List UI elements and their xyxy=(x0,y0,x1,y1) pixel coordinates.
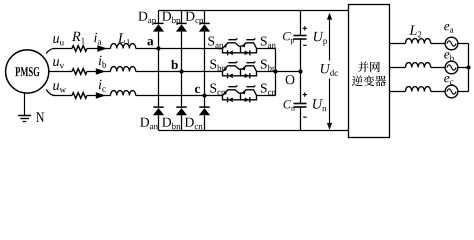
resistor R (phase c) xyxy=(72,93,87,99)
O vertical connector xyxy=(275,49,277,96)
diode Dc2 (right-pointing) xyxy=(245,97,250,102)
column c lower wire to bottom rail xyxy=(204,115,206,130)
wire source e_c to bus xyxy=(458,91,468,93)
wire resistor to arrow (phase c) xyxy=(87,95,100,97)
inverter text line 1 (bing wang) xyxy=(358,61,369,72)
node N label xyxy=(36,112,44,122)
wire inductor to switch (phase b) xyxy=(136,71,222,73)
current label i_c xyxy=(99,80,106,92)
resistor label R1 xyxy=(72,32,85,44)
diode Dc1 (left-pointing) xyxy=(228,97,233,102)
transistor Qa1 emitter arrow xyxy=(224,44,227,48)
inductor L (phase b) xyxy=(111,67,136,72)
transistor Qb1 emitter arrow xyxy=(224,67,227,71)
wire resistor to arrow (phase b) xyxy=(87,71,100,73)
grid neutral bus xyxy=(468,44,470,92)
node a label xyxy=(147,39,153,45)
AC source e_a xyxy=(445,37,458,50)
bidirectional switch S_cp/S_cn body xyxy=(223,90,257,100)
inductor L2 (row b) xyxy=(406,63,431,68)
voltage label u_w xyxy=(53,83,66,92)
voltage label u_v xyxy=(53,59,64,68)
wire inductor to switch (phase a) xyxy=(136,48,222,50)
junction dot capacitor midpoint xyxy=(298,69,302,73)
label e_b xyxy=(444,52,454,61)
label e_a xyxy=(444,24,453,33)
transistor Qb1 gate bar xyxy=(228,61,237,62)
diode Db2 (right-pointing) xyxy=(245,73,250,78)
transistor Qa2 emitter arrow xyxy=(243,44,246,48)
label U_p xyxy=(314,32,327,46)
wire inverter to L2 (row c) xyxy=(390,91,406,93)
column b wire row to lower diode xyxy=(181,72,183,107)
wire switch a output xyxy=(257,48,276,50)
current arrow i_b xyxy=(96,68,106,74)
Udc arrow upper segment xyxy=(329,17,331,61)
inductor L (phase c) xyxy=(111,91,136,96)
capacitor Cp xyxy=(294,35,307,37)
column a lower wire to bottom rail xyxy=(158,115,160,130)
current label i_b xyxy=(99,56,106,68)
PMSG text xyxy=(15,67,39,76)
ground symbol xyxy=(18,115,31,117)
column a wire diode to row a xyxy=(158,32,160,49)
diode Db1 (left-pointing) xyxy=(228,73,233,78)
phase c fork from PMSG xyxy=(46,90,55,96)
capacitor column upper wire xyxy=(300,11,302,35)
transistor Qc1 gate bar xyxy=(228,85,237,86)
inductor L (phase a) xyxy=(111,44,136,49)
label L2 xyxy=(409,26,421,38)
PMSG generator circle xyxy=(6,50,49,93)
transistor Qb2 emitter arrow xyxy=(243,67,246,71)
wire source e_a to bus xyxy=(458,43,468,45)
label D_cn xyxy=(185,118,203,130)
label C_p xyxy=(283,32,294,44)
diode Da1 (left-pointing) xyxy=(228,50,233,55)
label D_an xyxy=(140,118,158,130)
inductor L2 (row c) xyxy=(406,87,431,92)
diode D_an xyxy=(153,106,163,108)
wire phase b to resistor xyxy=(49,71,72,73)
inverter text line 2 (ni bian qi) xyxy=(352,75,363,86)
capacitor Cp plus sign xyxy=(303,27,307,29)
label S_bp xyxy=(210,60,225,73)
column b wire diode to row b xyxy=(181,32,183,72)
junction dot node b xyxy=(179,69,183,73)
top DC rail (positive) xyxy=(159,10,349,12)
wire arrow to inductor (phase b) xyxy=(104,71,111,73)
label S_ap xyxy=(208,37,223,50)
wire phase a to resistor xyxy=(53,48,72,50)
grid inverter box xyxy=(349,5,390,138)
wire inverter to L2 (row a) xyxy=(390,43,406,45)
column b upper wire xyxy=(181,11,183,24)
wire source e_b to bus xyxy=(458,67,468,69)
column c upper wire xyxy=(204,11,206,24)
capacitor Cn minus sign xyxy=(303,116,306,118)
capacitor column middle wire xyxy=(300,39,302,103)
column a wire row to lower diode xyxy=(158,49,160,107)
wire inductor to switch (phase c) xyxy=(136,95,222,97)
diode D_bp xyxy=(176,22,186,24)
label U_n xyxy=(313,99,326,111)
label e_c xyxy=(444,76,453,85)
transistor Qc1 emitter arrow xyxy=(224,91,227,95)
transistor Qc2 emitter arrow xyxy=(243,91,246,95)
label U_dc xyxy=(321,64,338,76)
label S_cn xyxy=(261,84,276,96)
wire L2 to source e_c xyxy=(431,91,445,93)
column b lower wire to bottom rail xyxy=(181,115,183,130)
capacitor Cn plus sign xyxy=(303,94,307,96)
column a upper wire xyxy=(158,11,160,24)
transistor Qa2 gate bar xyxy=(246,38,255,39)
inductor label L1 xyxy=(118,33,130,45)
current arrow i_c xyxy=(96,92,106,98)
wire inverter to L2 (row b) xyxy=(390,67,406,69)
current label i_a xyxy=(94,33,101,45)
resistor R (phase b) xyxy=(72,69,87,75)
wire arrow to inductor (phase c) xyxy=(104,95,111,97)
ground wire from PMSG neutral xyxy=(24,93,26,116)
wire phase c to resistor xyxy=(53,95,72,97)
wire O to capacitor midpoint xyxy=(276,71,301,73)
label D_bn xyxy=(162,118,180,130)
wire switch c output xyxy=(257,95,276,97)
label C_n xyxy=(284,100,295,111)
label S_an xyxy=(261,37,276,49)
wire switch b output xyxy=(257,71,276,73)
transistor Qa1 gate bar xyxy=(228,38,237,39)
wire L2 to source e_b xyxy=(431,67,445,69)
diode D_bn xyxy=(176,106,186,108)
node b label xyxy=(171,60,178,69)
wire L2 to source e_a xyxy=(431,43,445,45)
junction dot node c xyxy=(202,93,206,97)
diode D_ap xyxy=(153,22,163,24)
capacitor Cn xyxy=(294,103,307,105)
bidirectional switch S_ap/S_an body xyxy=(223,43,257,53)
label D_cp xyxy=(186,12,204,25)
transistor Qc2 gate bar xyxy=(246,85,255,86)
capacitor column lower wire xyxy=(300,107,302,131)
current arrow i_a xyxy=(97,45,107,51)
capacitor Cp minus sign xyxy=(303,44,306,46)
node O label xyxy=(286,75,295,84)
label D_bp xyxy=(162,12,180,25)
bidirectional switch S_bp/S_bn body xyxy=(223,66,257,76)
bottom DC rail (negative) xyxy=(159,130,349,132)
node c label xyxy=(195,87,200,93)
diode D_cp xyxy=(199,22,209,24)
column c wire diode to row c xyxy=(204,32,206,96)
AC source e_c xyxy=(445,85,458,98)
diode Da2 (right-pointing) xyxy=(245,50,250,55)
label S_cp xyxy=(210,84,225,97)
wire resistor to arrow (phase a) xyxy=(87,48,100,50)
column c wire row to lower diode xyxy=(204,96,206,107)
wire arrow to inductor (phase a) xyxy=(104,48,111,50)
resistor R (phase a) xyxy=(72,46,87,52)
AC source e_b xyxy=(445,61,458,74)
label S_bn xyxy=(261,60,276,72)
diode D_cn xyxy=(199,106,209,108)
phase a fork from PMSG xyxy=(46,48,55,53)
junction dot O vertical / phase b xyxy=(273,69,277,73)
junction dot node a xyxy=(156,46,160,50)
Udc arrow lower segment xyxy=(329,79,331,127)
label D_ap xyxy=(138,12,156,25)
inductor L2 (row a) xyxy=(406,39,431,44)
junction dot grid bus xyxy=(466,65,470,69)
transistor Qb2 gate bar xyxy=(246,61,255,62)
voltage label u_u xyxy=(53,36,64,45)
